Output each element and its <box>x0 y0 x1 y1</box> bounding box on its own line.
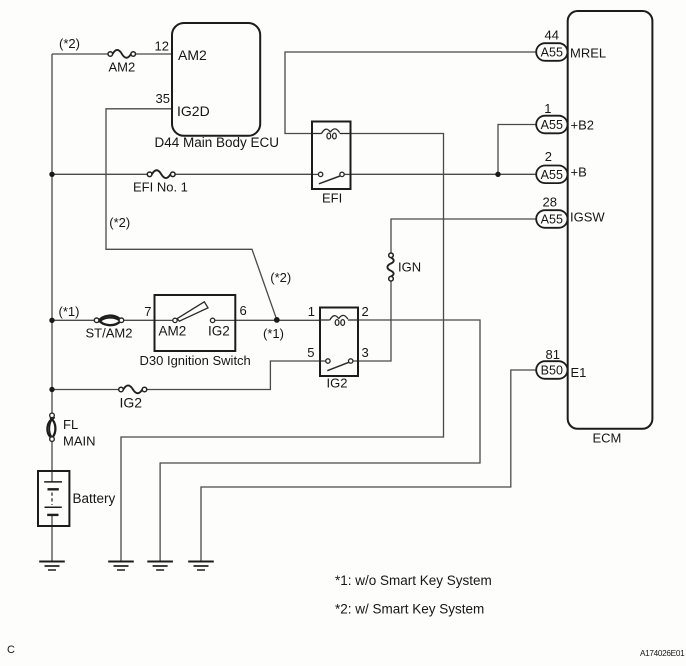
svg-text:7: 7 <box>144 304 151 319</box>
svg-text:IG2: IG2 <box>120 395 143 411</box>
svg-text:AM2: AM2 <box>109 60 136 75</box>
svg-text:C: C <box>7 644 15 656</box>
svg-text:FL: FL <box>63 417 78 432</box>
svg-text:B50: B50 <box>541 364 563 378</box>
svg-text:MREL: MREL <box>570 45 606 60</box>
svg-text:3: 3 <box>362 345 369 360</box>
svg-text:(*2): (*2) <box>109 215 130 230</box>
svg-text:2: 2 <box>545 149 552 164</box>
svg-text:IG2: IG2 <box>208 324 230 339</box>
svg-text:6: 6 <box>240 303 247 318</box>
svg-text:A55: A55 <box>541 46 563 60</box>
svg-text:+B: +B <box>571 165 587 180</box>
svg-text:ST/AM2: ST/AM2 <box>86 326 133 341</box>
svg-text:AM2: AM2 <box>159 324 187 339</box>
svg-text:EFI No. 1: EFI No. 1 <box>133 180 188 195</box>
svg-text:D30 Ignition Switch: D30 Ignition Switch <box>140 353 251 368</box>
svg-text:E1: E1 <box>571 365 587 380</box>
svg-text:A55: A55 <box>541 168 563 182</box>
svg-text:1: 1 <box>308 304 315 319</box>
svg-text:(*1): (*1) <box>263 326 284 341</box>
svg-text:IG2D: IG2D <box>177 103 210 119</box>
svg-text:IGSW: IGSW <box>570 210 605 225</box>
svg-text:5: 5 <box>307 345 314 360</box>
svg-text:EFI: EFI <box>322 191 342 206</box>
svg-text:A55: A55 <box>541 118 563 132</box>
svg-text:ECM: ECM <box>593 430 622 445</box>
svg-text:MAIN: MAIN <box>63 434 96 449</box>
svg-text:IGN: IGN <box>398 260 421 275</box>
svg-text:AM2: AM2 <box>178 47 207 63</box>
svg-text:2: 2 <box>362 304 369 319</box>
svg-text:44: 44 <box>545 28 559 43</box>
svg-text:12: 12 <box>155 39 169 54</box>
svg-text:D44 Main Body ECU: D44 Main Body ECU <box>155 135 280 150</box>
svg-text:+B2: +B2 <box>571 118 595 133</box>
svg-text:1: 1 <box>544 101 551 116</box>
svg-text:A55: A55 <box>541 213 563 227</box>
svg-text:A174026E01: A174026E01 <box>640 649 685 658</box>
svg-text:Battery: Battery <box>73 491 116 506</box>
svg-text:35: 35 <box>156 91 170 106</box>
svg-text:28: 28 <box>543 194 557 209</box>
svg-text:*2: w/ Smart Key System: *2: w/ Smart Key System <box>335 602 484 617</box>
svg-text:(*1): (*1) <box>59 304 80 319</box>
svg-text:(*2): (*2) <box>270 270 291 285</box>
svg-text:81: 81 <box>546 347 560 362</box>
svg-text:(*2): (*2) <box>59 36 80 51</box>
svg-text:IG2: IG2 <box>327 376 348 391</box>
svg-text:*1: w/o Smart Key System: *1: w/o Smart Key System <box>335 573 492 588</box>
